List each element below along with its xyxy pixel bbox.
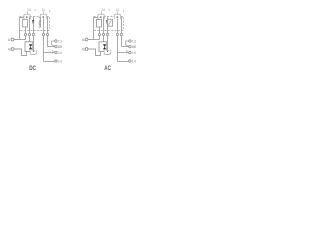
svg-text:DC: DC	[29, 65, 36, 72]
svg-text:AC: AC	[104, 65, 111, 72]
